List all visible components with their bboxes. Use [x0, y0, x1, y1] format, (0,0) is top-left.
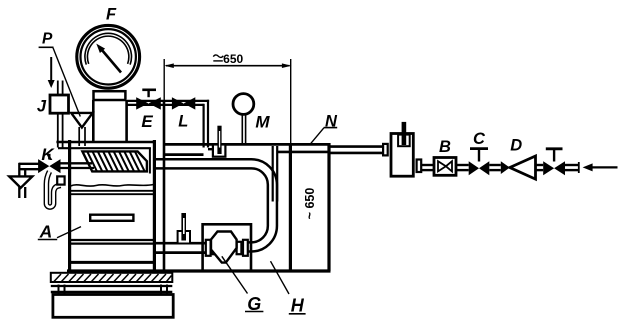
burner sight slot in tank A [90, 215, 133, 221]
vessel (test meter) on gas line [383, 144, 388, 156]
valve E with T-handle [136, 90, 161, 110]
gas meter B [434, 158, 456, 176]
wire pump inlet pipe from tank bottom [155, 243, 206, 252]
valve C with T-handle [478, 150, 480, 162]
pressure gauge F stem and pedestal [94, 91, 126, 100]
tank wall fitting for U-trap [57, 176, 64, 184]
wire gas supply line (right chain) [421, 165, 578, 170]
svg-text:K: K [41, 145, 55, 164]
tank A internal lines [68, 191, 156, 263]
pump G body [211, 232, 237, 263]
enclosure floor line [67, 269, 331, 272]
wire fat circulation pipe loop (tank to pump) [154, 164, 272, 247]
svg-text:B: B [439, 138, 451, 156]
svg-text:M: M [255, 113, 270, 132]
pump G housing box [203, 224, 251, 271]
water level wavy line in tank A [71, 185, 154, 187]
thermometer pocket on top gas pipe [213, 126, 226, 157]
base platform with hatching [51, 273, 173, 282]
enclosure H left wall and dimension extension [163, 59, 165, 101]
svg-text:A: A [39, 221, 53, 241]
thermometer M [233, 94, 254, 144]
drain funnel below valve K [19, 187, 25, 198]
base block [53, 295, 173, 318]
svg-text:E: E [141, 112, 153, 131]
wire thin gas pipe across top (L valve to vessel) [165, 144, 384, 154]
tank A internal heat-exchanger duct outline [149, 148, 151, 174]
svg-text:C: C [473, 130, 486, 148]
thermometer pocket on pump inlet pipe [178, 213, 190, 244]
U-trap siphon tube below valve K [46, 172, 60, 208]
dimension line approx 650 horizontal [164, 52, 291, 68]
svg-text:H: H [291, 295, 305, 315]
pressure gauge F dial [77, 25, 140, 88]
valve L [172, 97, 195, 109]
node N sampling stub (open-ended pipe into chamber) [273, 146, 278, 202]
enclosure H right wall [327, 143, 330, 271]
svg-text:F: F [106, 6, 117, 24]
wire pipe from gauge manifold through valves E and L [127, 100, 209, 148]
svg-text:L: L [178, 113, 188, 131]
inlet valve with T-handle (unlabelled) [553, 150, 555, 162]
enclosure H partition wall with dimension extension [290, 59, 292, 143]
svg-text:650: 650 [223, 52, 243, 66]
svg-text:~ 650: ~ 650 [303, 188, 317, 220]
pump G flanges [206, 240, 248, 256]
svg-text:J: J [37, 98, 47, 116]
base mounting rails with bolts [51, 285, 173, 294]
svg-text:D: D [510, 137, 522, 155]
svg-text:P: P [42, 31, 53, 48]
flow arrow into J [50, 57, 52, 81]
tank A outer walls [56, 140, 156, 273]
gas governor J box [58, 81, 63, 148]
pressure regulator D [501, 161, 510, 174]
heat exchanger hatched block inside tank A [82, 151, 146, 171]
funnel P (pressure tap drain) [79, 127, 85, 146]
gas supply flow arrow [591, 166, 618, 168]
valve K with drain pipes [19, 163, 94, 177]
